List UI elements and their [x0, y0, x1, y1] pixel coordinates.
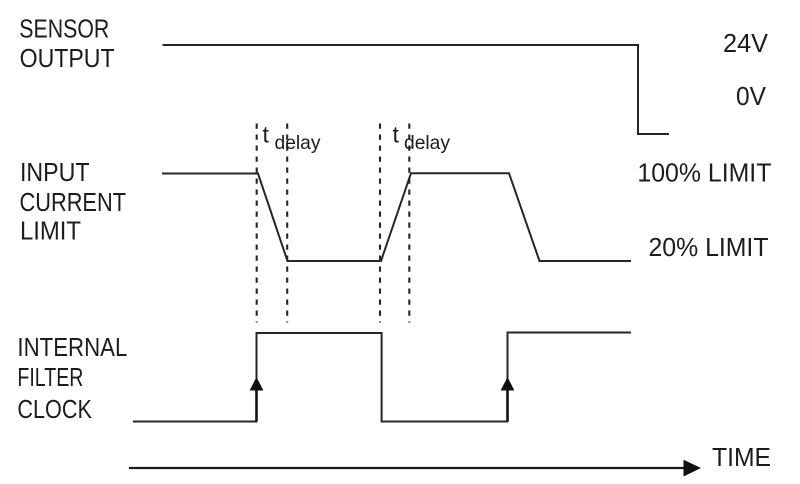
wire dashed marker line 1 — [256, 124, 258, 323]
svg-text:t: t — [263, 122, 270, 148]
label SENSOR OUTPUT — [19, 14, 114, 73]
svg-text:20% LIMIT: 20% LIMIT — [649, 232, 769, 262]
svg-text:FILTER: FILTER — [17, 362, 83, 392]
label INPUT CURRENT LIMIT — [20, 157, 127, 245]
arrow clock rising edge 1 — [250, 377, 264, 421]
svg-text:SENSOR: SENSOR — [19, 14, 109, 44]
arrow clock rising edge 2 — [501, 377, 515, 421]
wire internal-filter-clock waveform — [133, 333, 631, 422]
svg-text:delay: delay — [275, 132, 321, 154]
svg-text:TIME: TIME — [712, 442, 771, 472]
svg-text:LIMIT: LIMIT — [20, 216, 81, 246]
wire dashed marker line 3 — [379, 124, 381, 323]
wire input-current-limit waveform — [162, 173, 631, 261]
svg-text:t: t — [393, 122, 400, 148]
svg-text:CURRENT: CURRENT — [20, 187, 127, 217]
svg-text:CLOCK: CLOCK — [17, 394, 92, 424]
svg-text:delay: delay — [404, 132, 450, 154]
wire dashed marker line 2 — [286, 124, 288, 323]
label t_delay 2 — [393, 122, 451, 155]
svg-text:INTERNAL: INTERNAL — [17, 332, 127, 362]
wire sensor-output waveform — [163, 45, 670, 134]
svg-text:OUTPUT: OUTPUT — [20, 43, 115, 73]
svg-text:100% LIMIT: 100% LIMIT — [637, 158, 771, 188]
axis TIME arrow — [129, 460, 701, 477]
svg-text:INPUT: INPUT — [20, 157, 90, 187]
svg-text:0V: 0V — [736, 81, 767, 111]
svg-text:24V: 24V — [723, 28, 769, 58]
label INTERNAL FILTER CLOCK — [17, 332, 127, 424]
wire dashed marker line 4 — [408, 124, 410, 323]
label t_delay 1 — [263, 122, 321, 155]
